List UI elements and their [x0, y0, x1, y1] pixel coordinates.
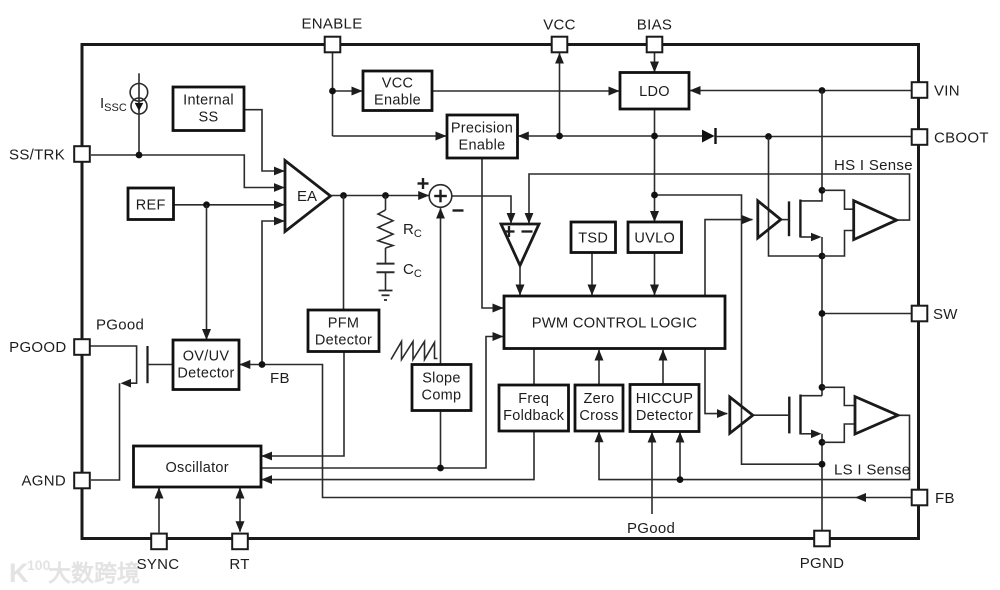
svg-text:Internal: Internal [183, 93, 234, 109]
svg-text:Enable: Enable [459, 138, 506, 154]
box UVLO [628, 222, 682, 253]
node EA output compensation branch [382, 192, 389, 199]
svg-text:CBOOT: CBOOT [934, 130, 989, 147]
node VIN branch to high-side drain [819, 87, 826, 94]
box HICCUP Detector [630, 385, 699, 432]
wire slope comp up into summing node [440, 208, 442, 468]
node LS rail [819, 461, 826, 468]
wire Precision Enable to PWM logic [482, 158, 503, 308]
diode D1 [702, 130, 715, 143]
wire diode cathode to CBOOT pin [716, 136, 913, 138]
svg-text:Freq: Freq [518, 391, 549, 407]
svg-text:Detector: Detector [315, 333, 372, 349]
svg-text:CC: CC [403, 261, 422, 280]
wire capacitor to ground [385, 272, 387, 290]
wire TSD to PWM logic [591, 253, 593, 296]
svg-text:Cross: Cross [579, 408, 618, 424]
svg-text:SS: SS [199, 110, 219, 126]
node VCC branch [651, 192, 658, 199]
svg-text:大数跨境: 大数跨境 [48, 560, 140, 586]
pin SS/TRK [74, 146, 90, 162]
wire LDO output down through rail to UVLO [654, 109, 656, 222]
wire HS sense amp upper input [822, 190, 854, 209]
svg-text:AGND: AGND [21, 473, 66, 490]
svg-text:Enable: Enable [374, 93, 421, 109]
wire HS sense amp lower input [822, 231, 854, 257]
wire LS drain to PGND [821, 434, 823, 531]
wire FB branch up to EA input 4 [262, 221, 284, 365]
box Freq Foldback [499, 385, 569, 431]
wire UVLO to PWM logic [654, 253, 656, 296]
svg-text:SS/TRK: SS/TRK [9, 147, 65, 164]
wire LS gate lead [753, 414, 790, 416]
svg-text:UVLO: UVLO [634, 231, 675, 247]
label plus [418, 182, 429, 184]
transistor Q1 PGood open drain [90, 346, 137, 383]
wire ENABLE junction to Precision Enable left [333, 135, 447, 137]
capacitor Cc [377, 263, 395, 265]
box PFM Detector [308, 310, 379, 352]
wire LDO output rail left into Precision Enable right [518, 135, 654, 137]
node HS drain [819, 187, 826, 194]
box PWM CONTROL LOGIC [504, 296, 725, 349]
box TSD [571, 222, 616, 253]
svg-text:REF: REF [136, 198, 166, 214]
box VCC Enable [363, 71, 432, 111]
label minus [453, 209, 464, 211]
svg-text:Foldback: Foldback [503, 408, 565, 424]
box LDO [620, 73, 689, 110]
node EA output PFM branch [340, 192, 347, 199]
op-amp U5 LS current sense [855, 397, 898, 434]
svg-text:Slope: Slope [422, 371, 461, 387]
wire LDO rail right to diode anode [655, 135, 703, 137]
wire ENABLE pin to junction and VCC Enable [332, 52, 334, 136]
svg-text:ISSC: ISSC [100, 95, 127, 114]
pin SW [912, 306, 928, 322]
wire HICCUP to PWM logic [662, 350, 664, 385]
gate driver U4 low-side [730, 397, 753, 433]
svg-text:HICCUP: HICCUP [636, 391, 693, 407]
wire EA output down to PFM Detector [343, 196, 345, 311]
svg-text:FB: FB [935, 490, 955, 507]
svg-text:SW: SW [933, 306, 958, 323]
svg-text:PFM: PFM [328, 316, 360, 332]
pin PGND [814, 531, 830, 547]
box OV/UV Detector [173, 340, 239, 390]
wire to compensation network [385, 196, 387, 211]
wire VCC Enable to LDO [432, 90, 619, 92]
pin AGND [74, 473, 90, 489]
svg-text:LDO: LDO [639, 84, 670, 100]
box Slope Comp [412, 365, 471, 411]
node LS drain [819, 384, 826, 391]
svg-text:PGND: PGND [800, 555, 845, 572]
node LDO output [651, 133, 658, 140]
wire Issc stub [138, 73, 140, 155]
box Precision Enable [447, 115, 518, 158]
pin PGOOD [74, 339, 90, 355]
pin SYNC [151, 534, 167, 550]
box Oscillator [134, 446, 262, 487]
svg-text:OV/UV: OV/UV [183, 349, 230, 365]
node CBOOT bootstrap branch [765, 133, 772, 140]
svg-text:PWM CONTROL LOGIC: PWM CONTROL LOGIC [532, 316, 698, 332]
svg-text:PGOOD: PGOOD [9, 339, 66, 356]
sawtooth waveform [391, 342, 438, 360]
wire SW node vertical [821, 237, 823, 396]
wire comparator output to PWM logic [519, 266, 521, 296]
wire oscillator line to PWM logic [261, 337, 503, 469]
pin VIN [912, 82, 928, 98]
wire PGood to HICCUP [651, 432, 653, 514]
node LS source [819, 439, 826, 446]
wire VIN pin to LDO right input [690, 90, 912, 92]
svg-text:HS I Sense: HS I Sense [834, 157, 913, 174]
node REF branch [203, 201, 210, 208]
wire Freq Foldback to oscillator [262, 431, 534, 480]
svg-text:VCC: VCC [382, 76, 414, 92]
wire LS I Sense output to Zero Cross and HICCUP [599, 415, 910, 479]
wire OV/UV to PGood gate [148, 364, 173, 366]
transistor Q2 high-side MOSFET [800, 190, 822, 201]
svg-text:ENABLE: ENABLE [302, 16, 363, 33]
wire Zero Cross to PWM logic [598, 350, 600, 385]
svg-text:Precision: Precision [451, 121, 513, 137]
pin BIAS [647, 37, 663, 53]
node slope comp tap [437, 465, 444, 472]
wire HS gate lead [781, 219, 789, 221]
wire LS sense amp lower input [822, 424, 855, 442]
box REF [128, 188, 174, 220]
wire LS sense amp upper input [822, 387, 855, 405]
svg-text:TSD: TSD [578, 231, 608, 247]
pin FB [912, 490, 928, 506]
svg-text:LS I Sense: LS I Sense [834, 462, 910, 479]
node SS/TRK Issc junction [136, 152, 143, 159]
wire summing output to comparator plus input [452, 196, 511, 223]
svg-text:RC: RC [403, 221, 422, 240]
wire EA output to summing node [331, 195, 429, 197]
wire HS I Sense to comparator minus input [529, 174, 910, 223]
ground [379, 290, 393, 292]
gate driver U2 high-side [758, 201, 781, 238]
transistor Q3 low-side MOSFET [801, 395, 823, 397]
svg-text:Oscillator: Oscillator [165, 460, 228, 476]
svg-text:EA: EA [297, 188, 317, 205]
svg-text:BIAS: BIAS [637, 17, 672, 34]
pin VCC [552, 37, 568, 53]
node SW pin branch [819, 310, 826, 317]
wire PWM logic to HS gate driver [705, 220, 753, 296]
node HS source rail [819, 253, 826, 260]
pin ENABLE [325, 37, 341, 53]
wire VCC branch to LS driver rail [655, 195, 823, 464]
svg-text:VIN: VIN [934, 83, 960, 100]
svg-text:RT: RT [229, 556, 249, 573]
wire SS/TRK to EA input 2 [91, 155, 284, 188]
wire HS drain from VIN [821, 91, 823, 191]
wire FB pin line to OV/UV and EA [240, 365, 912, 498]
wire REF branch down to OV/UV top [206, 205, 208, 340]
IC boundary frame [82, 45, 919, 539]
wire REF to EA input 3 [174, 204, 285, 206]
wire SYNC to oscillator [158, 488, 160, 533]
pin RT [232, 534, 248, 550]
wire Freq Foldback top to PWM logic [533, 349, 535, 386]
wire PWM logic to LS gate driver [705, 349, 727, 414]
svg-text:PGood: PGood [96, 317, 144, 334]
summing junction [429, 185, 452, 208]
svg-text:FB: FB [270, 370, 290, 387]
wire RT to oscillator bidirectional [239, 488, 241, 510]
svg-text:Comp: Comp [422, 388, 462, 404]
wire Internal SS to EA input 1 [244, 110, 284, 171]
node ENABLE branch [329, 88, 336, 95]
arrowhead FB direction [855, 493, 866, 502]
wire BIAS pin to LDO top [654, 53, 656, 73]
node FB branch to EA [259, 361, 266, 368]
svg-text:Detector: Detector [177, 366, 234, 382]
wire resistor to capacitor [385, 248, 387, 264]
svg-text:Zero: Zero [583, 391, 614, 407]
wire SW pin line [822, 313, 912, 315]
pin CBOOT [912, 129, 928, 145]
wire CBOOT rail down through HS driver to source node [769, 137, 823, 257]
box Internal SS [173, 87, 244, 131]
svg-text:SYNC: SYNC [137, 556, 180, 573]
node LS sense branch [677, 476, 684, 483]
wire VCC pin up-arrow from LDO output rail [559, 53, 561, 136]
svg-text:Detector: Detector [636, 408, 693, 424]
comparator U1 [501, 224, 539, 266]
wire PFM Detector to oscillator [262, 352, 344, 457]
box Zero Cross [575, 385, 623, 431]
wire AGND to PGood transistor source [91, 383, 120, 480]
current source Issc [130, 84, 148, 102]
node LDO-VCC tap [556, 133, 563, 140]
op-amp U3 HS current sense [854, 201, 897, 240]
op-amp EA [285, 161, 331, 232]
svg-text:PGood: PGood [627, 520, 675, 537]
resistor Rc [378, 210, 393, 248]
svg-text:K: K [9, 558, 29, 588]
svg-text:VCC: VCC [543, 17, 576, 34]
